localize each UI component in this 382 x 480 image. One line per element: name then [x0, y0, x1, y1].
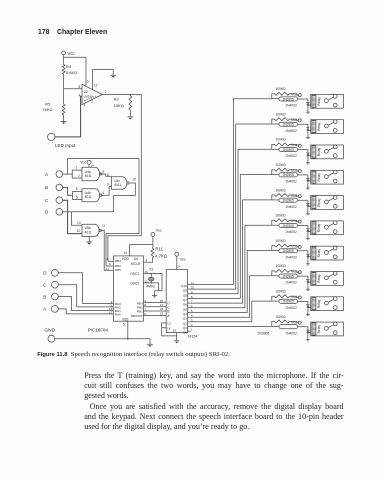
terminal D (top)	[56, 209, 63, 216]
svg-text:Q0: Q0	[183, 331, 187, 335]
svg-text:1N4002: 1N4002	[285, 205, 297, 209]
svg-text:Relay: Relay	[317, 97, 321, 106]
ground below diode (relay 8)	[307, 282, 309, 286]
svg-text:4.7KΩ: 4.7KΩ	[155, 254, 168, 259]
svg-text:C: C	[43, 283, 47, 288]
svg-text:12: 12	[94, 83, 98, 87]
svg-text:5.6KΩ: 5.6KΩ	[66, 70, 77, 75]
diode 1N4002 (relay 5)	[306, 203, 309, 205]
74154 output Q1 pin 2	[188, 326, 191, 328]
relay 6 contacts	[325, 225, 329, 229]
svg-text:Q5: Q5	[183, 307, 187, 311]
svg-text:RB4: RB4	[115, 259, 121, 263]
svg-text:100KΩ: 100KΩ	[275, 87, 286, 91]
relay 5 contacts	[325, 200, 329, 204]
relay 8 contacts	[325, 276, 329, 280]
wire collector to relay coil (unit 10)	[298, 327, 311, 333]
relay driver unit 6: base resistor 100K&#937;	[272, 220, 274, 225]
svg-text:Vcc: Vcc	[291, 93, 297, 97]
ground below crystal	[152, 291, 157, 296]
U4b input stub box	[73, 192, 83, 200]
relay driver unit 8: base resistor 100K&#937;	[272, 271, 274, 276]
svg-text:2N3905: 2N3905	[257, 331, 269, 335]
transistor 2N3905 (relay 1)	[272, 98, 279, 100]
wire U4a.3 to U4c.8	[100, 174, 111, 176]
relay 7 box	[311, 246, 344, 260]
svg-text:1: 1	[191, 328, 193, 332]
wire collector to relay coil (unit 3)	[298, 150, 311, 156]
svg-text:100KΩ: 100KΩ	[275, 214, 286, 218]
relay driver unit 4: base resistor 100K&#937;	[272, 170, 274, 175]
transistor 2N3905 (relay 9)	[272, 300, 279, 302]
svg-text:Relay: Relay	[317, 299, 321, 308]
svg-text:1N4002: 1N4002	[285, 331, 297, 335]
NAND gate U4b 4011	[82, 189, 100, 202]
terminal B	[56, 184, 63, 191]
74154 decoder box	[166, 270, 187, 333]
wire op-amp output	[102, 94, 141, 96]
svg-text:3: 3	[102, 169, 104, 173]
wire Q7 to relay 4	[190, 175, 271, 299]
wire collector to relay coil (unit 2)	[298, 124, 311, 130]
wire U4b.4 to U4c.9	[101, 187, 111, 196]
svg-text:5: 5	[79, 85, 81, 89]
relay 7 contacts	[325, 251, 329, 255]
ground rail	[55, 338, 150, 340]
wire U4c.10 to U5a.13 (return path)	[71, 183, 135, 225]
svg-text:100KΩ: 100KΩ	[275, 290, 286, 294]
svg-text:18: 18	[167, 326, 171, 330]
terminal C (bottom)	[52, 281, 59, 288]
relay 5 box	[311, 196, 344, 210]
svg-text:Q8: Q8	[183, 293, 187, 297]
svg-text:8: 8	[107, 173, 109, 177]
ground below diode (relay 7)	[307, 257, 309, 261]
svg-text:RB3: RB3	[115, 264, 121, 268]
ground below diode (relay 5)	[307, 206, 309, 210]
svg-text:2N3905: 2N3905	[283, 123, 294, 127]
pin 14 VDD wire	[130, 245, 153, 256]
wire collector to relay coil (unit 4)	[298, 175, 311, 181]
svg-text:RB5: RB5	[115, 268, 121, 272]
svg-text:Relay: Relay	[317, 122, 321, 131]
Vcc terminal (relay 3)	[298, 144, 301, 147]
svg-text:Q6: Q6	[183, 303, 187, 307]
wire Q10 to relay 1	[190, 99, 271, 285]
svg-text:1: 1	[91, 100, 93, 104]
svg-text:22: 22	[160, 307, 164, 311]
diode 1N4002 (relay 7)	[306, 253, 309, 255]
svg-text:9: 9	[109, 262, 111, 266]
wire collector to relay coil (unit 6)	[298, 226, 311, 232]
svg-text:Relay: Relay	[317, 198, 321, 207]
svg-text:19: 19	[172, 329, 176, 333]
svg-text:24: 24	[177, 264, 181, 268]
Vcc terminal (relay 4)	[298, 170, 301, 173]
wire C to PIC	[58, 285, 113, 307]
svg-text:100KΩ: 100KΩ	[275, 315, 286, 319]
NAND gate U4c 4011	[112, 177, 127, 189]
terminal A (bottom)	[52, 306, 59, 313]
svg-text:LED Input: LED Input	[55, 143, 76, 148]
svg-text:100KΩ: 100KΩ	[275, 264, 286, 268]
ground at pin 12 wire	[110, 70, 116, 76]
ground below 74154	[174, 336, 179, 341]
svg-text:2N3905: 2N3905	[283, 97, 294, 101]
svg-text:A: A	[45, 172, 49, 177]
svg-text:5: 5	[76, 195, 78, 199]
svg-text:Vcc: Vcc	[291, 118, 297, 122]
transistor 2N3905 (relay 3)	[272, 148, 279, 150]
svg-text:Relay: Relay	[317, 223, 321, 232]
wire U5a.11 to PIC RB5	[100, 230, 113, 270]
svg-text:10: 10	[105, 257, 109, 261]
svg-text:4: 4	[102, 191, 104, 195]
svg-text:1N4002: 1N4002	[285, 129, 297, 133]
terminal C (top)	[56, 197, 63, 204]
relay 3 contacts	[325, 149, 329, 153]
svg-text:11: 11	[106, 266, 109, 270]
NAND gate U5a 4011	[82, 224, 99, 236]
op-amp U2 LM339	[82, 84, 102, 104]
svg-text:1N4002: 1N4002	[285, 104, 297, 108]
relay 8 box	[311, 272, 344, 286]
Vcc terminal (relay 6)	[298, 220, 301, 223]
svg-text:Vcc: Vcc	[291, 219, 297, 223]
wire node to op-amp pin 5	[64, 88, 82, 90]
svg-text:100KΩ: 100KΩ	[275, 138, 286, 142]
terminal A (top)	[56, 171, 63, 178]
svg-text:100KΩ: 100KΩ	[275, 239, 286, 243]
svg-text:R11: R11	[155, 246, 163, 251]
svg-text:2: 2	[105, 90, 107, 94]
svg-text:12: 12	[167, 322, 171, 326]
svg-text:Relay: Relay	[317, 147, 321, 156]
wire B to PIC	[58, 297, 113, 311]
svg-text:Vcc: Vcc	[291, 320, 297, 324]
svg-text:Q9: Q9	[183, 289, 187, 293]
diode 1N4002 (relay 9)	[306, 304, 309, 306]
svg-text:4MHz: 4MHz	[146, 284, 155, 288]
wire D stub	[63, 211, 72, 213]
svg-text:Vcc: Vcc	[291, 295, 297, 299]
svg-text:OSC1: OSC1	[130, 272, 139, 276]
svg-text:Relay: Relay	[317, 249, 321, 258]
U4a input stub box	[72, 170, 82, 178]
relay driver unit 10: base resistor 100K&#937;	[272, 322, 274, 327]
relay driver unit 9: base resistor 100K&#937;	[272, 296, 274, 301]
svg-text:Vcc: Vcc	[291, 143, 297, 147]
wire Q8 to relay 3	[190, 149, 271, 293]
wire Q9 to relay 2	[190, 124, 271, 289]
svg-text:4011: 4011	[85, 195, 92, 199]
diode 1N4002 (relay 4)	[306, 177, 309, 179]
svg-text:4: 4	[145, 259, 147, 263]
enable pins 12 18 19	[162, 323, 177, 336]
svg-text:2N3905: 2N3905	[283, 249, 294, 253]
ground below diode (relay 1)	[307, 105, 309, 109]
svg-text:2N3905: 2N3905	[283, 148, 294, 152]
svg-text:23: 23	[160, 312, 164, 316]
relay 10 box	[311, 322, 344, 336]
svg-text:Vcc: Vcc	[156, 228, 162, 232]
wires RB3-RB0 to 74154 D C B A	[143, 302, 166, 304]
svg-text:Relay: Relay	[317, 173, 321, 182]
svg-text:100KΩ: 100KΩ	[275, 188, 286, 192]
svg-text:Q7: Q7	[183, 298, 187, 302]
relay 4 contacts	[325, 175, 329, 179]
svg-text:GND: GND	[44, 327, 55, 333]
terminal B (bottom)	[52, 293, 59, 300]
svg-text:X1: X1	[149, 268, 153, 272]
svg-text:Q3: Q3	[183, 317, 187, 321]
resistor R11 4.7K&#937;	[151, 247, 154, 259]
wire Vcc rail to op-amp pin 3	[64, 57, 86, 86]
svg-text:15KΩ: 15KΩ	[42, 107, 52, 112]
wire collector to relay coil (unit 5)	[298, 200, 311, 206]
relay driver unit 2: base resistor 100K&#937;	[272, 119, 274, 124]
transistor 2N3905 (relay 10)	[272, 325, 279, 327]
svg-text:R3: R3	[114, 97, 120, 102]
svg-text:Relay: Relay	[317, 274, 321, 283]
wire Q3 to relay 8	[190, 276, 271, 317]
wire Q4 to relay 7	[190, 251, 271, 313]
Vcc terminal (comparator supply)	[62, 51, 66, 55]
svg-text:Q10: Q10	[181, 284, 187, 288]
svg-text:1N4002: 1N4002	[285, 306, 297, 310]
Vcc terminal (R11)	[151, 233, 155, 237]
wire A to PIC rail (around gates)	[68, 159, 139, 266]
Vcc terminal (relay 10)	[298, 321, 301, 324]
Vcc terminal (relay 2)	[298, 119, 301, 122]
resistor R3 10K&#937;	[129, 95, 132, 112]
svg-text:RB0/INT: RB0/INT	[131, 314, 143, 318]
svg-text:12: 12	[76, 229, 80, 233]
ground below diode (relay 4)	[307, 181, 309, 185]
wire B to U4b	[63, 187, 73, 195]
svg-text:B: B	[45, 185, 48, 190]
74154 output Q0 pin 1	[188, 330, 191, 332]
svg-text:D: D	[43, 271, 47, 276]
ground below diode (relay 2)	[307, 130, 309, 134]
74154 output Q5 pin 6	[188, 307, 191, 309]
Vcc terminal (74154 pin 24)	[175, 252, 179, 256]
74154 output Q2 pin 3	[188, 321, 191, 323]
diode 1N4002 (relay 3)	[306, 152, 309, 154]
Vcc terminal (relay 9)	[298, 296, 301, 299]
relay 2 box	[311, 120, 344, 134]
svg-text:OSC2: OSC2	[130, 281, 139, 285]
svg-text:2: 2	[78, 174, 80, 178]
wire R4 to node	[63, 76, 65, 104]
ground below R5	[61, 116, 67, 122]
wire comparator output to PIC RB (long vertical)	[108, 95, 141, 262]
relay 1 contacts	[325, 99, 329, 103]
relay 10 contacts	[325, 327, 329, 331]
svg-text:1: 1	[75, 166, 77, 170]
svg-text:VDD: VDD	[122, 257, 130, 261]
wire Q1 to relay 10	[190, 325, 271, 327]
svg-text:Relay: Relay	[317, 325, 321, 334]
resistor R5 15K&#937;	[62, 103, 65, 116]
relay 2 contacts	[325, 124, 329, 128]
svg-text:4011: 4011	[114, 183, 121, 187]
ground below R3	[127, 111, 133, 117]
svg-text:2N3905: 2N3905	[283, 300, 294, 304]
wire R11 to MCLR pin 4	[143, 259, 152, 262]
74154 output Q9 pin 10	[188, 288, 191, 290]
PIC16F84 U6 box	[113, 256, 143, 321]
relay driver unit 1: base resistor 100K&#937;	[272, 94, 274, 99]
svg-text:1N4002: 1N4002	[285, 230, 297, 234]
diode 1N4002 (relay 2)	[306, 127, 309, 129]
wire collector to relay coil (unit 8)	[298, 276, 311, 282]
wire Vcc to R4	[63, 55, 65, 63]
wire A to PIC	[58, 309, 113, 314]
svg-text:Vcc: Vcc	[291, 270, 297, 274]
transistor 2N3905 (relay 5)	[272, 199, 279, 201]
relay 9 contacts	[325, 301, 329, 305]
svg-text:1N4002: 1N4002	[285, 281, 297, 285]
transistor 2N3905 (relay 6)	[272, 224, 279, 226]
crystal X1 4MHz circuit	[143, 274, 162, 291]
transistor 2N3905 (relay 4)	[272, 174, 279, 176]
svg-text:1N4002: 1N4002	[285, 255, 297, 259]
svg-text:5: 5	[123, 322, 125, 326]
wire Q5 to relay 6	[190, 225, 271, 308]
svg-text:4011: 4011	[85, 230, 92, 234]
wire D to PIC	[58, 273, 113, 304]
svg-text:2N3905: 2N3905	[283, 199, 294, 203]
svg-text:Q4: Q4	[183, 312, 187, 316]
svg-text:U6: U6	[134, 257, 138, 261]
wire VSS to ground rail	[127, 321, 129, 339]
transistor 2N3905 (relay 7)	[272, 250, 279, 252]
wire LED input to op-amp pin 4	[55, 96, 82, 137]
svg-text:2N3905: 2N3905	[283, 173, 294, 177]
svg-text:D: D	[45, 210, 49, 215]
LED input terminal	[48, 133, 55, 140]
Vcc terminal (relay 5)	[298, 195, 301, 198]
svg-text:VSS: VSS	[122, 317, 128, 321]
74154 output Q8 pin 9	[188, 293, 191, 295]
svg-text:2N3905: 2N3905	[283, 274, 294, 278]
wire collector to relay coil (unit 1)	[298, 99, 311, 105]
svg-text:100KΩ: 100KΩ	[275, 163, 286, 167]
relay driver unit 3: base resistor 100K&#937;	[272, 144, 274, 149]
svg-text:Vcc: Vcc	[291, 194, 297, 198]
svg-text:9: 9	[107, 182, 109, 186]
relay 6 box	[311, 221, 344, 235]
svg-text:Q1: Q1	[183, 326, 187, 330]
svg-text:Vcc: Vcc	[291, 244, 297, 248]
ground below U5a	[86, 236, 92, 242]
svg-text:A: A	[43, 307, 47, 312]
wire Q2 to relay 9	[190, 301, 271, 322]
svg-text:1N4002: 1N4002	[285, 154, 297, 158]
ground below diode (relay 3)	[307, 156, 309, 160]
NAND gate U4a 4011	[82, 167, 100, 180]
ground at rail end	[147, 339, 153, 345]
74154 output Q10 pin 11	[188, 283, 191, 285]
Vcc pin 14 of U4a	[88, 164, 90, 167]
resistor R4 5.6K&#937;	[62, 63, 65, 75]
svg-text:11: 11	[102, 224, 106, 228]
wire collector to relay coil (unit 7)	[298, 251, 311, 257]
svg-text:1N4002: 1N4002	[285, 180, 297, 184]
svg-text:100KΩ: 100KΩ	[275, 112, 286, 116]
svg-text:13: 13	[77, 221, 81, 225]
svg-text:14: 14	[91, 164, 95, 168]
terminal GND	[48, 335, 55, 342]
ground below diode (relay 10)	[307, 333, 309, 337]
74154 output Q6 pin 7	[188, 302, 191, 304]
svg-text:Vcc: Vcc	[80, 161, 86, 165]
wire collector to relay coil (unit 9)	[298, 301, 311, 307]
svg-text:RA0: RA0	[115, 313, 121, 317]
terminal D (bottom)	[52, 269, 59, 276]
74154 output Q4 pin 5	[188, 312, 191, 314]
svg-text:Vcc: Vcc	[180, 257, 186, 261]
svg-text:Vcc: Vcc	[291, 169, 297, 173]
wire A to U4a inputs	[63, 173, 73, 175]
svg-text:74154: 74154	[187, 334, 197, 338]
svg-text:4011: 4011	[85, 174, 92, 178]
svg-text:10KΩ: 10KΩ	[114, 103, 124, 108]
relay driver unit 7: base resistor 100K&#937;	[272, 246, 274, 251]
svg-text:10: 10	[132, 178, 136, 182]
relay driver unit 5: base resistor 100K&#937;	[272, 195, 274, 200]
relay 9 box	[311, 297, 344, 311]
svg-text:R5: R5	[45, 102, 51, 107]
svg-text:PIC16F84: PIC16F84	[88, 328, 109, 333]
svg-text:6: 6	[76, 187, 78, 191]
relay 4 box	[311, 170, 344, 184]
wire C to U5a.12	[63, 200, 82, 233]
svg-text:Q2: Q2	[183, 321, 187, 325]
ground below diode (relay 9)	[307, 308, 309, 312]
svg-text:R4: R4	[66, 64, 72, 69]
Vcc terminal (relay 1)	[298, 94, 301, 97]
svg-text:2N3905: 2N3905	[283, 224, 294, 228]
74154 output Q3 pin 4	[188, 316, 191, 318]
Vcc terminal (relay 8)	[298, 271, 301, 274]
relay 3 box	[311, 145, 344, 159]
wire Q6 to relay 5	[190, 200, 271, 303]
svg-text:C: C	[45, 198, 49, 203]
diode 1N4002 (relay 1)	[306, 101, 309, 103]
junction at R3	[130, 94, 132, 96]
diode 1N4002 (relay 10)	[306, 329, 309, 331]
diode 1N4002 (relay 6)	[306, 228, 309, 230]
ground below diode (relay 6)	[307, 232, 309, 236]
wire op-amp pin 12 to ground	[93, 70, 114, 90]
svg-text:MCLR: MCLR	[131, 262, 141, 266]
svg-text:B: B	[43, 294, 46, 299]
Vcc terminal (relay 7)	[298, 245, 301, 248]
svg-text:3: 3	[87, 80, 89, 84]
transistor 2N3905 (relay 2)	[272, 123, 279, 125]
svg-text:Vcc: Vcc	[67, 51, 75, 56]
svg-text:U2: U2	[84, 90, 88, 94]
svg-text:B: B	[167, 310, 169, 314]
74154 output Q7 pin 8	[188, 297, 191, 299]
transistor 2N3905 (relay 8)	[272, 275, 279, 277]
relay 1 box	[311, 94, 344, 108]
diode 1N4002 (relay 8)	[306, 279, 309, 281]
svg-text:14: 14	[123, 251, 127, 255]
